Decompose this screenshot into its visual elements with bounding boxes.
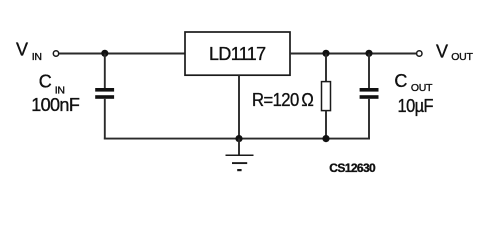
wire: ground stub [238, 139, 240, 156]
ground bar 3 [237, 169, 241, 171]
ground bar 2 [232, 162, 247, 164]
label VIN [16, 40, 42, 63]
node: resistor bottom junction [322, 135, 329, 142]
svg-text:C: C [394, 71, 407, 91]
node: COUT top junction [365, 50, 372, 57]
terminal VOUT (open circle) [417, 51, 422, 56]
wire: resistor upper lead [325, 54, 327, 82]
terminal VIN (open circle) [53, 51, 58, 56]
svg-text:IN: IN [32, 51, 42, 63]
regulator U1 LD1117 box [185, 32, 290, 75]
wire: regulator output to VOUT terminal [290, 53, 417, 55]
wire: ground rail [104, 138, 370, 140]
wire: VIN terminal to regulator input [59, 53, 185, 55]
svg-text:OUT: OUT [451, 51, 473, 63]
wire: resistor lower lead [325, 111, 327, 140]
CIN top plate [95, 88, 114, 92]
node: input junction [101, 50, 108, 57]
svg-text:OUT: OUT [411, 82, 433, 94]
node: ground pin junction [235, 135, 242, 142]
svg-text:R=120 Ω: R=120 Ω [252, 90, 313, 110]
svg-text:LD1117: LD1117 [209, 44, 266, 64]
svg-text:V: V [16, 40, 28, 60]
capacitor C2 COUT [360, 54, 379, 140]
label COUT value [394, 71, 433, 116]
wire: CIN lower lead [104, 99, 106, 140]
wire: regulator ground pin [238, 75, 240, 138]
svg-text:C: C [39, 71, 52, 91]
svg-text:V: V [436, 41, 448, 61]
svg-text:10µF: 10µF [398, 96, 434, 116]
CIN bottom plate [95, 95, 114, 99]
COUT bottom plate [360, 95, 379, 99]
wire: CIN upper lead [104, 54, 106, 89]
svg-text:100nF: 100nF [31, 95, 80, 115]
capacitor C1 CIN [95, 54, 114, 140]
ground symbol [226, 139, 254, 171]
node: resistor top junction [322, 50, 329, 57]
label CIN value [31, 71, 80, 115]
resistor R 120 ohm [322, 54, 331, 140]
label VOUT [436, 41, 473, 63]
wire: COUT upper lead [368, 54, 370, 89]
wire: COUT lower lead [368, 99, 370, 140]
resistor body [322, 82, 331, 111]
svg-text:CS12630: CS12630 [329, 161, 376, 175]
ground bar 1 [226, 154, 254, 156]
COUT top plate [360, 88, 379, 92]
